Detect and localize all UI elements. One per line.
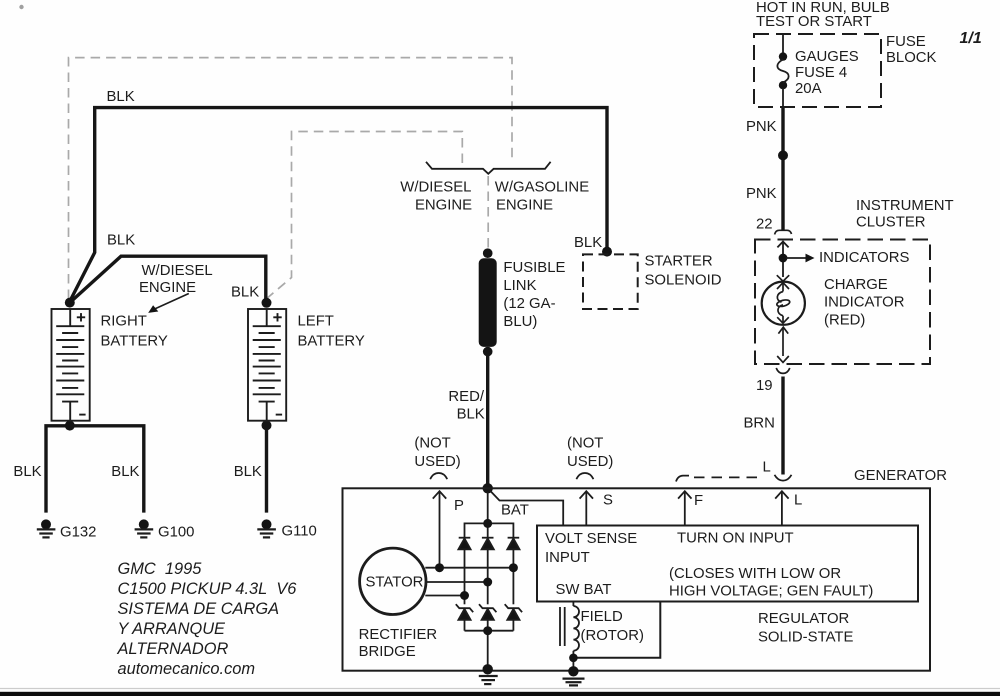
svg-text:BLK: BLK xyxy=(231,285,259,301)
svg-text:RED/: RED/ xyxy=(448,389,484,405)
svg-text:CHARGE: CHARGE xyxy=(824,277,888,293)
svg-text:(NOT: (NOT xyxy=(567,436,603,452)
svg-text:1/1: 1/1 xyxy=(960,30,982,47)
svg-text:W/DIESEL: W/DIESEL xyxy=(400,180,471,196)
svg-text:BLK: BLK xyxy=(111,464,139,480)
svg-text:(NOT: (NOT xyxy=(414,436,450,452)
svg-text:FUSE: FUSE xyxy=(886,34,926,50)
svg-text:BATTERY: BATTERY xyxy=(101,334,168,350)
svg-text:PNK: PNK xyxy=(746,119,777,135)
svg-text:ENGINE: ENGINE xyxy=(496,198,553,214)
svg-text:FIELD: FIELD xyxy=(581,609,623,625)
svg-text:RECTIFIER: RECTIFIER xyxy=(359,627,438,643)
svg-text:G100: G100 xyxy=(158,525,194,541)
svg-text:USED): USED) xyxy=(567,454,613,470)
svg-text:PNK: PNK xyxy=(746,186,777,202)
svg-text:BRIDGE: BRIDGE xyxy=(359,644,416,660)
svg-text:BAT: BAT xyxy=(501,503,529,519)
svg-text:HIGH VOLTAGE; GEN FAULT): HIGH VOLTAGE; GEN FAULT) xyxy=(669,584,873,600)
svg-text:Y ARRANQUE: Y ARRANQUE xyxy=(118,620,227,638)
svg-text:BLU): BLU) xyxy=(503,314,537,330)
svg-text:BATTERY: BATTERY xyxy=(298,334,365,350)
svg-text:GENERATOR: GENERATOR xyxy=(854,468,947,484)
svg-text:TURN ON INPUT: TURN ON INPUT xyxy=(677,531,794,547)
svg-text:L: L xyxy=(763,460,771,476)
svg-text:BLK: BLK xyxy=(13,464,41,480)
svg-text:BLK: BLK xyxy=(574,235,602,251)
svg-text:TEST OR START: TEST OR START xyxy=(756,14,872,30)
svg-text:INSTRUMENT: INSTRUMENT xyxy=(856,198,954,214)
svg-text:GAUGES: GAUGES xyxy=(795,49,859,65)
svg-text:RIGHT: RIGHT xyxy=(101,314,147,330)
svg-text:VOLT SENSE: VOLT SENSE xyxy=(545,531,637,547)
svg-text:INDICATOR: INDICATOR xyxy=(824,295,905,311)
svg-text:INPUT: INPUT xyxy=(545,550,590,566)
svg-text:W/DIESEL: W/DIESEL xyxy=(142,263,213,279)
svg-text:CLUSTER: CLUSTER xyxy=(856,215,926,231)
svg-text:FUSE 4: FUSE 4 xyxy=(795,65,847,81)
svg-text:REGULATOR: REGULATOR xyxy=(758,611,850,627)
svg-text:USED): USED) xyxy=(414,454,460,470)
svg-text:19: 19 xyxy=(756,378,773,394)
svg-text:22: 22 xyxy=(756,217,773,233)
svg-text:ENGINE: ENGINE xyxy=(415,198,472,214)
svg-text:F: F xyxy=(694,493,703,509)
svg-text:W/GASOLINE: W/GASOLINE xyxy=(495,180,589,196)
svg-text:BLK: BLK xyxy=(107,233,135,249)
svg-text:SW BAT: SW BAT xyxy=(556,582,612,598)
svg-text:(RED): (RED) xyxy=(824,313,865,329)
svg-text:G110: G110 xyxy=(282,524,317,540)
svg-text:BRN: BRN xyxy=(744,416,775,432)
svg-text:INDICATORS: INDICATORS xyxy=(819,250,910,266)
svg-text:L: L xyxy=(794,493,802,509)
svg-text:SOLID-STATE: SOLID-STATE xyxy=(758,630,853,646)
svg-text:BLOCK: BLOCK xyxy=(886,50,937,66)
svg-text:STATOR: STATOR xyxy=(366,575,424,591)
svg-text:(12 GA-: (12 GA- xyxy=(503,296,555,312)
svg-text:BLK: BLK xyxy=(457,407,485,423)
svg-text:FUSIBLE: FUSIBLE xyxy=(503,260,565,276)
svg-text:LINK: LINK xyxy=(503,278,536,294)
svg-text:S: S xyxy=(603,493,613,509)
svg-text:C1500 PICKUP 4.3L V6: C1500 PICKUP 4.3L V6 xyxy=(118,580,298,598)
svg-text:GMC 1995: GMC 1995 xyxy=(118,560,203,578)
svg-text:BLK: BLK xyxy=(234,464,262,480)
svg-text:G132: G132 xyxy=(60,525,96,541)
svg-text:P: P xyxy=(454,498,464,514)
svg-text:ALTERNADOR: ALTERNADOR xyxy=(117,640,229,658)
svg-text:STARTER: STARTER xyxy=(645,254,713,270)
svg-text:automecanico.com: automecanico.com xyxy=(118,660,256,678)
svg-text:SISTEMA DE CARGA: SISTEMA DE CARGA xyxy=(118,600,280,618)
svg-text:SOLENOID: SOLENOID xyxy=(645,273,722,289)
svg-text:LEFT: LEFT xyxy=(298,314,334,330)
svg-text:(CLOSES WITH LOW OR: (CLOSES WITH LOW OR xyxy=(669,566,841,582)
svg-text:(ROTOR): (ROTOR) xyxy=(581,628,644,644)
svg-text:20A: 20A xyxy=(795,81,822,97)
svg-text:BLK: BLK xyxy=(107,89,135,105)
